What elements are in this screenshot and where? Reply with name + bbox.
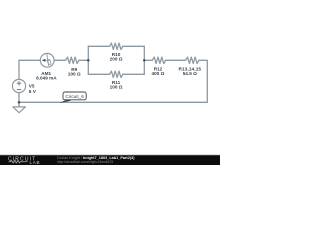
node B junction dot xyxy=(143,59,146,62)
wire bottom return xyxy=(19,101,207,103)
svg-text:LAB: LAB xyxy=(30,160,41,165)
ground xyxy=(13,107,26,113)
wire node B to R12 xyxy=(144,59,152,61)
label R12 value xyxy=(152,67,165,76)
wire top-left from source to ammeter xyxy=(19,60,40,80)
node A junction dot xyxy=(87,59,90,62)
svg-text:100 Ω: 100 Ω xyxy=(68,71,81,76)
wire R12 to R13 xyxy=(166,59,186,61)
svg-text:V5: V5 xyxy=(29,84,35,89)
svg-text:http://circuitlab.com/c9gfu43r: http://circuitlab.com/c9gfu43rmd525 xyxy=(57,160,113,164)
resistor R13,14,15 xyxy=(186,57,199,63)
annotation Circuit_6 pointer xyxy=(60,97,73,103)
label R11 value xyxy=(110,80,123,89)
label V5 value xyxy=(29,84,37,94)
resistor R10 xyxy=(110,43,123,49)
wire ammeter to R9 xyxy=(54,59,66,61)
resistor R11 xyxy=(110,71,123,77)
label AM1 xyxy=(36,71,57,81)
wire right vertical of parallel block xyxy=(143,46,145,74)
label R10 value xyxy=(110,52,123,61)
voltage source V5 xyxy=(12,79,25,92)
footer bar xyxy=(0,153,220,156)
label R13,14,15 value xyxy=(178,67,201,76)
label R9 value xyxy=(68,67,81,76)
resistor R9 xyxy=(66,57,79,63)
wire right side down xyxy=(199,60,207,102)
wire bottom branch right lead xyxy=(123,73,145,75)
resistor R12 xyxy=(152,57,165,63)
wire top branch left lead xyxy=(88,45,109,47)
wire bottom branch left lead xyxy=(88,73,109,75)
svg-text:5 V: 5 V xyxy=(29,89,37,94)
wire R9 to node A xyxy=(79,59,88,61)
logo CircuitLab xyxy=(8,156,40,164)
svg-text:200 Ω: 200 Ω xyxy=(110,57,123,62)
node at source bottom xyxy=(18,101,21,104)
svg-text:54.5 Ω: 54.5 Ω xyxy=(183,71,197,76)
wire top branch right lead xyxy=(123,45,145,47)
svg-text:400 Ω: 400 Ω xyxy=(152,71,165,76)
wire left vertical of parallel block xyxy=(87,46,89,74)
svg-text:8.049 mA: 8.049 mA xyxy=(36,76,57,81)
svg-text:100 Ω: 100 Ω xyxy=(110,84,123,89)
svg-text:Circuit_6: Circuit_6 xyxy=(65,94,84,99)
ammeter AM1 xyxy=(40,53,54,67)
annotation Circuit_6 box xyxy=(63,92,86,100)
wire source bottom stem xyxy=(18,92,20,107)
